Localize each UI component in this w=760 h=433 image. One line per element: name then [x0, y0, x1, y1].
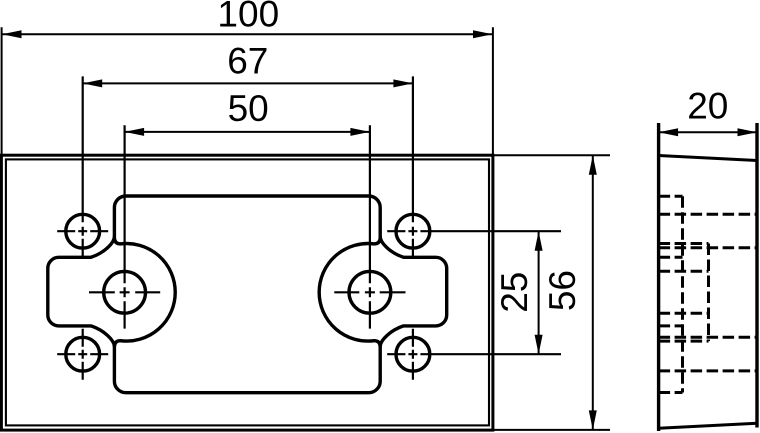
dimension 100 — [2, 27, 493, 154]
central rounded-rect opening with interrupted sides — [114, 196, 380, 393]
centerlines big hole right (vertical doubles as 50-dim extension) — [334, 125, 405, 328]
svg-text:25: 25 — [494, 272, 535, 313]
centerlines big hole left (vertical doubles as 50-dim extension) — [89, 125, 160, 328]
svg-text:67: 67 — [227, 41, 268, 82]
hidden lines: small through holes in side view — [659, 214, 757, 371]
hidden lines: shallow recess outline in side view — [659, 196, 683, 392]
svg-text:20: 20 — [687, 86, 728, 127]
dimension 25 (vertical, right of plate) — [538, 231, 540, 354]
dimension 20 — [659, 131, 757, 133]
big hole right — [349, 271, 391, 313]
big hole left — [104, 271, 146, 313]
svg-text:100: 100 — [217, 0, 279, 34]
hidden lines: deep pocket and big holes in side view — [659, 244, 709, 342]
small hole bottom-left — [66, 337, 100, 371]
side view left edge — [657, 123, 660, 431]
centerlines small hole top-right (right segment doubles as 25-dim extension) — [387, 76, 561, 257]
centerlines small hole bottom-left — [57, 329, 108, 380]
small hole top-right — [396, 214, 430, 248]
left bulge arc around big hole — [120, 244, 175, 342]
side view bottom edge (slanted) — [659, 423, 757, 428]
right lobe cutout — [380, 237, 447, 347]
svg-text:50: 50 — [228, 88, 269, 129]
centerlines small hole bottom-right (right segment doubles as 25-dim extension) — [387, 329, 561, 380]
dimension 67 — [83, 82, 413, 84]
right bulge arc around big hole — [319, 244, 374, 342]
dimension 50 — [125, 131, 370, 133]
svg-text:56: 56 — [542, 270, 583, 311]
plate inner offset rectangle (front view) — [6, 159, 489, 425]
left lobe cutout — [48, 237, 115, 347]
centerlines small hole top-left — [57, 76, 108, 257]
side view top edge (slanted) — [659, 156, 757, 161]
small hole top-left — [66, 214, 100, 248]
plate outer rectangle (front view) — [1, 155, 493, 430]
side view right edge — [755, 123, 758, 428]
dimension 56 (vertical, right of plate) — [494, 155, 610, 430]
small hole bottom-right — [396, 337, 430, 371]
